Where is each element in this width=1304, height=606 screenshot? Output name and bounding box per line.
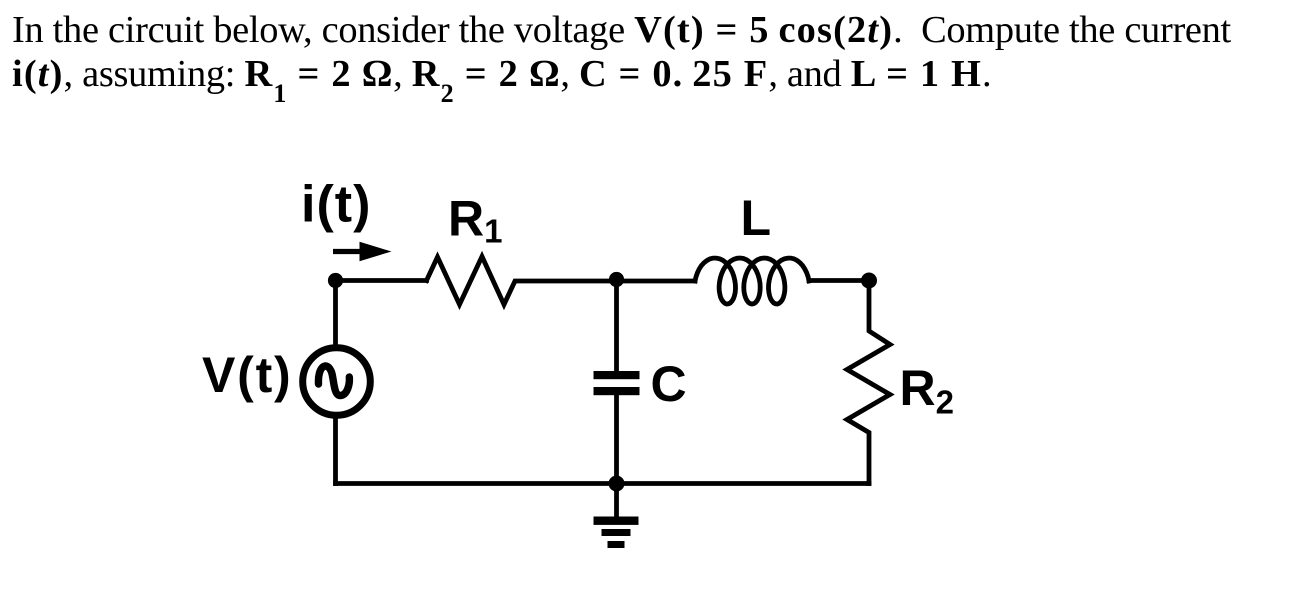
svg-text:R2: R2 <box>900 360 954 421</box>
svg-text:C: C <box>651 356 687 412</box>
svg-text:V(t): V(t) <box>202 347 293 403</box>
svg-text:i(t): i(t) <box>301 176 371 234</box>
svg-text:R1: R1 <box>448 191 502 250</box>
svg-text:L: L <box>741 190 772 246</box>
